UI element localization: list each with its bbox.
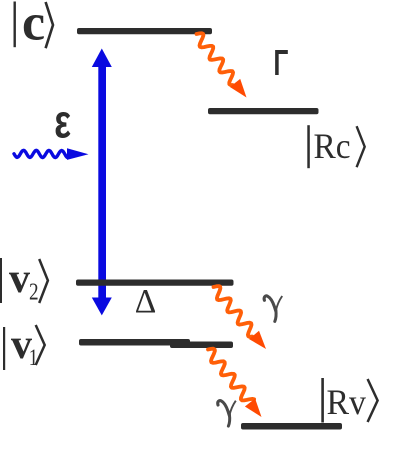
label |v2> ket bracket bbox=[39, 259, 48, 303]
blue arrow head up bbox=[92, 49, 112, 68]
label |Rc> letters Rc bbox=[314, 127, 351, 166]
label |Rv> ket bar bbox=[321, 378, 324, 423]
label |v1> ket bar bbox=[3, 327, 5, 370]
label epsilon bbox=[54, 95, 71, 148]
blue drive wavy arrowhead bbox=[67, 148, 89, 160]
orange decay wavy gamma upper bbox=[214, 286, 253, 337]
svg-text:2: 2 bbox=[29, 278, 39, 305]
svg-text:Rv: Rv bbox=[327, 382, 367, 422]
label |c> ket bar bbox=[14, 2, 16, 48]
svg-text:1: 1 bbox=[29, 344, 38, 371]
label gamma lower bbox=[218, 401, 236, 427]
orange decay wavy gamma lower bbox=[208, 349, 254, 401]
svg-text:ε: ε bbox=[54, 95, 71, 148]
wire blue pump arrow shaft (double-headed vertical) bbox=[98, 58, 106, 304]
label |v1> subscript 1 bbox=[29, 344, 38, 371]
level line |v1> segment b bbox=[170, 342, 233, 349]
orange decay Gamma arrowhead bbox=[230, 79, 247, 98]
label |v2> ket bar bbox=[0, 258, 2, 303]
level line |Rv> bbox=[241, 423, 342, 430]
label |v2> subscript 2 bbox=[29, 278, 39, 305]
svg-text:Rc: Rc bbox=[314, 127, 351, 166]
label |v1> ket bracket bbox=[36, 325, 45, 365]
blue drive wavy arrow bbox=[14, 150, 67, 157]
orange decay gamma upper arrowhead bbox=[249, 331, 266, 349]
label |c> ket bracket bbox=[46, 2, 53, 48]
orange decay gamma lower arrowhead bbox=[245, 399, 262, 418]
label |Rv> ket bracket bbox=[368, 379, 378, 422]
svg-text:Γ: Γ bbox=[274, 42, 289, 83]
svg-text:Δ: Δ bbox=[135, 283, 157, 320]
level line |Rc> bbox=[208, 108, 319, 114]
label gamma upper bbox=[264, 296, 282, 322]
blue arrow head down bbox=[92, 298, 112, 316]
label |Rv> letters Rv bbox=[327, 382, 367, 422]
level line |c> bbox=[77, 28, 212, 34]
level line |v2> bbox=[76, 280, 234, 286]
label |Rc> ket bracket bbox=[357, 126, 365, 167]
svg-text:v: v bbox=[9, 256, 30, 302]
orange decay wavy Gamma bbox=[197, 33, 234, 85]
level line |v1> segment a bbox=[79, 339, 190, 346]
svg-text:c: c bbox=[22, 0, 45, 52]
label |Rc> ket bar bbox=[307, 125, 310, 168]
label Gamma bbox=[274, 42, 289, 83]
